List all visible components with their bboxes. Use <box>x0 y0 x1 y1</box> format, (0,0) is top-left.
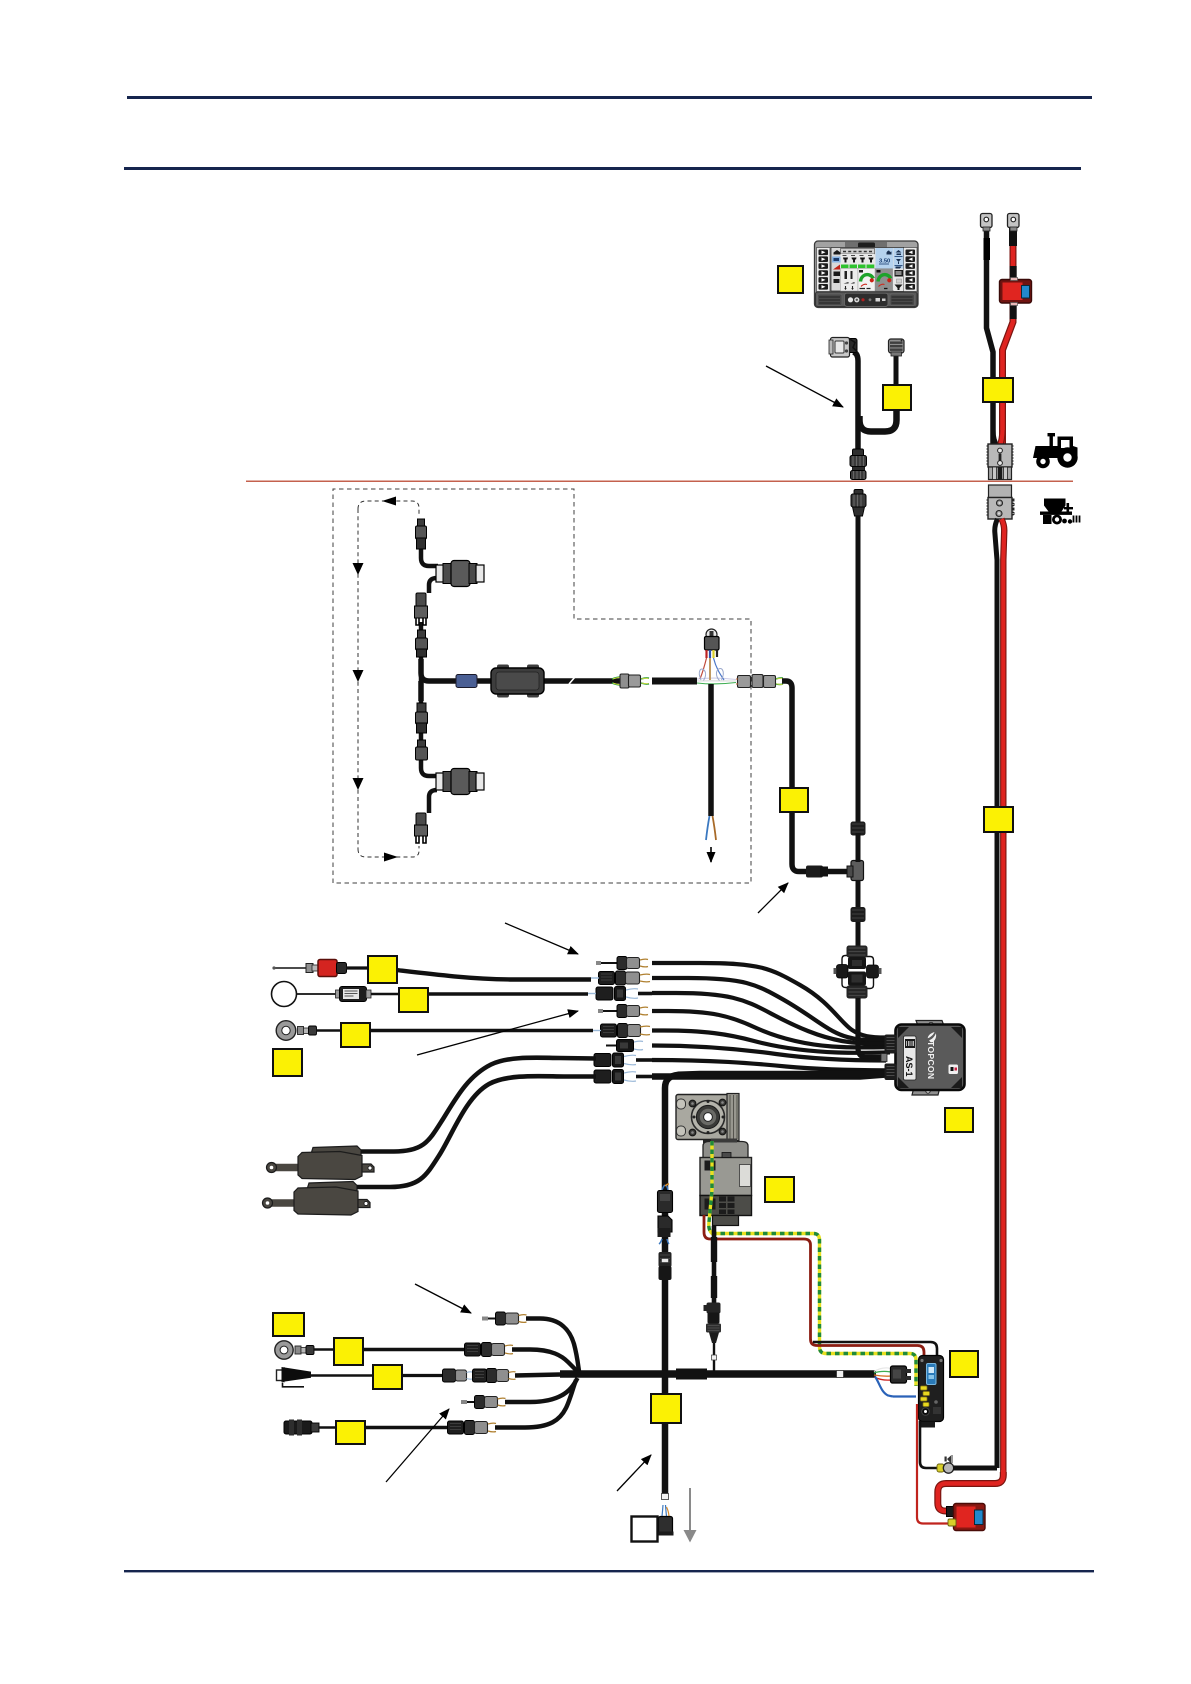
svg-text:TOPCON: TOPCON <box>926 1041 936 1079</box>
svg-text:AS-1: AS-1 <box>904 1056 914 1077</box>
